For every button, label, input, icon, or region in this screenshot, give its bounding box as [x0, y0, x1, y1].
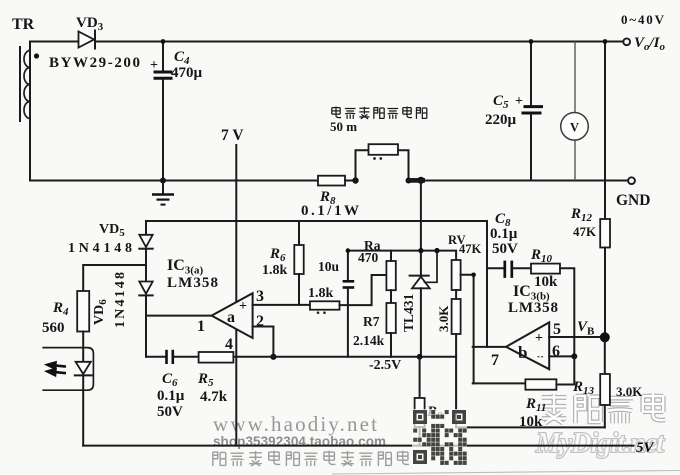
svg-text:220µ: 220µ [485, 112, 517, 128]
wire: bottom of R13 to 3.0K vertical [456, 426, 605, 428]
svg-text:47K: 47K [573, 224, 597, 239]
wire: R10 to pin6 node [560, 268, 574, 356]
resistor: current meter sampling resistor 50m [369, 144, 399, 155]
svg-text:b: b [518, 343, 527, 362]
svg-text:+: + [515, 94, 523, 109]
wire: op-amp a output pin1 [146, 315, 213, 317]
optocoupler light arrows [48, 363, 67, 376]
wire: R4 to LED [82, 332, 84, 363]
svg-text:4: 4 [225, 336, 233, 353]
watermark MyDigit.net [535, 428, 665, 459]
svg-text:www.haodiy.net: www.haodiy.net [213, 412, 377, 436]
svg-text:2.14k: 2.14k [353, 333, 385, 348]
wire: 7V supply line [235, 145, 237, 446]
wire: reference net y250 [348, 251, 456, 260]
svg-text:TL431: TL431 [401, 293, 416, 332]
svg-text:-2.5V: -2.5V [369, 358, 401, 373]
wire: pin7 output wire [473, 346, 507, 348]
svg-text:470: 470 [358, 250, 379, 265]
GND terminal [623, 177, 635, 184]
svg-text:LM358: LM358 [167, 275, 218, 291]
capacitor C8 [487, 261, 531, 278]
wire: branch to R4 [83, 265, 146, 291]
wire: pin2 to -2.5V rail [253, 327, 274, 357]
wire: R8 to node A [345, 180, 356, 182]
resistor R8 [318, 176, 345, 186]
capacitor C4 [154, 42, 173, 181]
optocoupler box [43, 348, 93, 391]
diode VD3 [79, 31, 96, 49]
node A [352, 177, 358, 183]
svg-text:1.8k: 1.8k [308, 286, 334, 301]
wire: pin5 to VB [549, 336, 600, 338]
capacitor C6 [146, 350, 199, 364]
svg-text:3.0K: 3.0K [436, 305, 451, 332]
wire: ground rail left of R8 [30, 180, 318, 182]
wire: top +V rail from VD3 to output terminal [96, 41, 622, 43]
wire: R13 top [604, 342, 606, 375]
resistor R9 [415, 357, 425, 446]
capacitor C5 [522, 42, 544, 181]
wire: pin3 wire to Ra tap [340, 275, 387, 305]
svg-text:R7: R7 [363, 314, 380, 329]
svg-text:V: V [570, 121, 579, 135]
node VB dot [600, 332, 610, 342]
junction 10u top [346, 248, 351, 253]
svg-text:6: 6 [552, 343, 560, 360]
diode VD5 [139, 235, 152, 282]
svg-text:50 m: 50 m [330, 119, 357, 134]
svg-text:LM358: LM358 [508, 300, 558, 316]
svg-text:47K: 47K [459, 242, 482, 256]
svg-text:7: 7 [491, 352, 499, 369]
resistor R6 [294, 245, 303, 274]
resistor R12 [600, 219, 610, 248]
svg-text:7 V: 7 V [221, 127, 244, 144]
svg-text:10u: 10u [318, 259, 340, 274]
optocoupler LED [75, 362, 92, 446]
node B dots [406, 178, 412, 184]
svg-text:4.7k: 4.7k [200, 389, 228, 405]
wire: R12 line from top rail [604, 42, 606, 220]
wire: bottom negative rail [83, 445, 633, 447]
svg-text:+: + [239, 299, 247, 314]
watermark chinese scan QR line [213, 451, 409, 466]
svg-text:0.1µ: 0.1µ [490, 226, 518, 242]
wire: TL431 ref pin [425, 251, 437, 283]
svg-text:0.1µ: 0.1µ [157, 388, 185, 404]
ground symbol [152, 181, 174, 205]
wire: pin3 line [253, 304, 310, 306]
svg-text:50V: 50V [492, 241, 518, 257]
junction on ref net [418, 248, 423, 253]
svg-text:50V: 50V [157, 404, 183, 420]
wire: op-amp b output net horizontal [146, 220, 487, 222]
svg-text:470µ: 470µ [171, 65, 203, 81]
wire: left vertical VD5/VD6 chain [145, 221, 147, 235]
scan page edge [332, 471, 680, 475]
resistor Ra [386, 251, 395, 303]
resistor 3.0K below RV [452, 299, 461, 427]
svg-text:+: + [150, 58, 158, 73]
resistor R13 [600, 374, 610, 405]
wire: left vertical from top rail to ground rail [29, 42, 31, 181]
wire: R12 to VB node [604, 248, 606, 334]
svg-text:1.8k: 1.8k [262, 263, 288, 278]
svg-text:TR: TR [12, 16, 35, 33]
op-amp U-IC3a triangle [212, 293, 253, 338]
resistor R10 [531, 264, 560, 274]
junction pin2 [270, 354, 276, 360]
wire: left stub up to sampling resistor [356, 150, 369, 180]
QR code watermark [412, 409, 467, 466]
transformer TR winding [20, 47, 39, 121]
resistor 1.8k horizontal [310, 301, 340, 309]
wire: TL431 cathode line from node B [420, 181, 422, 276]
junction R9 top [417, 354, 423, 360]
svg-text:3: 3 [256, 288, 264, 305]
junction pin6 [571, 353, 577, 359]
op-amp IC3b triangle [506, 322, 549, 369]
resistor R5 [199, 352, 234, 363]
svg-text:BYW29-200: BYW29-200 [49, 55, 140, 71]
svg-text:3.0K: 3.0K [616, 384, 643, 399]
svg-text:5V: 5V [636, 440, 656, 456]
svg-text:10k: 10k [534, 274, 558, 290]
svg-text:GND: GND [616, 192, 650, 209]
junction dots on top rail [161, 39, 166, 44]
wire: -2.5V rail [233, 356, 456, 358]
wire: right stub down to node B [398, 150, 409, 180]
diode VD6 [139, 282, 152, 357]
label chinese: current meter sampling resistor [332, 107, 427, 119]
watermark big outline chinese MyDigit home [542, 393, 665, 423]
resistor R11 [525, 379, 556, 389]
wire: R6 vertical [298, 221, 300, 245]
output terminal Vo/Io [619, 38, 631, 45]
wire: op-amp b output net vertical [486, 221, 488, 347]
TL431 [410, 276, 430, 357]
junction wiper [471, 273, 476, 278]
wire: pin6 [549, 355, 574, 357]
svg-text:1: 1 [197, 318, 205, 335]
resistor R4 [77, 291, 89, 332]
svg-text:+: + [535, 331, 543, 346]
junction ref dot [434, 248, 439, 253]
capacitor 10u vertical [343, 251, 355, 357]
svg-text:shop35392304.taobao.com: shop35392304.taobao.com [213, 434, 386, 449]
potentiometer RV [452, 260, 461, 299]
svg-text:560: 560 [42, 320, 65, 336]
svg-text:5: 5 [553, 321, 561, 338]
junction C4/ground [160, 178, 166, 184]
voltmeter V [561, 42, 589, 181]
wire: top +V rail left segment [30, 41, 78, 43]
svg-text:a: a [227, 309, 235, 326]
wire: R11 feedback [473, 382, 526, 384]
resistor R7 [386, 303, 395, 357]
wire: RV wiper [461, 275, 474, 384]
wire: ground rail right portion [409, 180, 629, 182]
